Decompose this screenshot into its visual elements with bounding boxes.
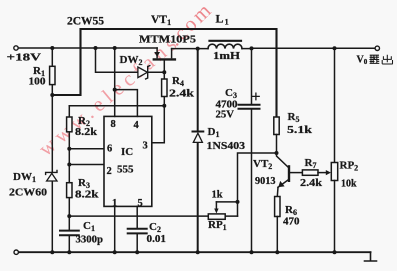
svg-text:VT1: VT1 bbox=[151, 14, 171, 27]
ground terminal bbox=[14, 250, 18, 254]
svg-text:R4: R4 bbox=[172, 75, 184, 88]
node VT2 collector bbox=[275, 151, 279, 155]
watermark www.elecfans.com bbox=[34, 0, 216, 161]
node R1 bottom bbox=[50, 93, 54, 97]
svg-text:470: 470 bbox=[283, 217, 300, 228]
transistor VT2 9013 bbox=[277, 153, 303, 197]
diode D1 bbox=[193, 49, 204, 253]
svg-text:L1: L1 bbox=[216, 12, 229, 27]
node DW2 branch bbox=[94, 46, 98, 50]
wire pin 8 supply bbox=[114, 48, 116, 116]
potentiometer RP1 bbox=[208, 202, 237, 219]
svg-text:DW1: DW1 bbox=[13, 171, 36, 184]
capacitor C2 bbox=[128, 229, 147, 253]
svg-text:555: 555 bbox=[117, 164, 134, 176]
node R3/C1 bbox=[67, 214, 71, 218]
wire pin 6 bbox=[69, 148, 104, 150]
svg-text:8: 8 bbox=[111, 119, 116, 130]
resistor R6 bbox=[275, 197, 280, 253]
wire R1-bottom to R5 feed (thick upper wire) bbox=[52, 29, 276, 117]
node C1 ground bbox=[67, 250, 71, 254]
node pin2 tap bbox=[67, 163, 71, 167]
svg-text:9013: 9013 bbox=[255, 176, 276, 187]
wire R2-R3 bbox=[68, 149, 70, 183]
resistor R7 bbox=[302, 170, 331, 175]
node R1 top bbox=[50, 46, 54, 50]
svg-text:100: 100 bbox=[29, 77, 46, 88]
svg-text:D1: D1 bbox=[208, 126, 220, 139]
wire collector to RP1 riser bbox=[238, 153, 277, 216]
input terminal +18V bbox=[14, 46, 18, 50]
svg-text:1k: 1k bbox=[212, 190, 223, 201]
svg-text:0.01: 0.01 bbox=[147, 234, 167, 245]
wire pin3 to R2 top bbox=[69, 105, 164, 107]
capacitor C1 bbox=[60, 216, 79, 252]
MOSFET VT1 bbox=[154, 48, 175, 72]
svg-text:IC: IC bbox=[121, 146, 133, 158]
svg-text:RP1: RP1 bbox=[208, 219, 227, 232]
svg-text:8.2k: 8.2k bbox=[75, 190, 99, 201]
resistor R2 bbox=[67, 106, 72, 149]
svg-text:R3: R3 bbox=[78, 177, 90, 190]
svg-text:2.4k: 2.4k bbox=[169, 89, 195, 100]
svg-text:R7: R7 bbox=[305, 157, 317, 170]
node gate junction bbox=[162, 70, 166, 74]
node RP2 rail top bbox=[333, 46, 337, 50]
resistor R5 bbox=[274, 117, 279, 153]
zener diode DW1 bbox=[46, 95, 57, 252]
svg-text:8.2k: 8.2k bbox=[75, 127, 98, 138]
svg-text:3300p: 3300p bbox=[76, 235, 104, 246]
svg-text:VT2: VT2 bbox=[253, 158, 272, 171]
svg-text:2.4k: 2.4k bbox=[300, 178, 323, 189]
svg-text:2CW60: 2CW60 bbox=[9, 187, 48, 199]
svg-text:+18V: +18V bbox=[7, 52, 42, 64]
node RP1 wiper tie bbox=[236, 200, 240, 204]
output terminal V0 bbox=[375, 46, 379, 50]
node pin6 tap bbox=[67, 147, 71, 151]
zener diode DW2 bbox=[138, 66, 164, 79]
wire pin 2 bbox=[69, 164, 104, 166]
svg-text:10k: 10k bbox=[341, 179, 357, 190]
resistor R4 bbox=[162, 72, 167, 106]
ground rail bbox=[18, 251, 370, 253]
svg-text:C1: C1 bbox=[83, 220, 95, 233]
resistor R3 bbox=[67, 183, 72, 216]
node pin1 ground bbox=[113, 250, 117, 254]
node R4 bottom / pin3 bbox=[162, 104, 166, 108]
svg-text:R6: R6 bbox=[285, 204, 297, 217]
capacitor C3 electrolytic bbox=[239, 48, 260, 252]
potentiometer RP2 bbox=[331, 48, 337, 252]
node DW1 ground bbox=[50, 250, 54, 254]
resistor R1 bbox=[50, 48, 55, 95]
svg-text:C3: C3 bbox=[225, 87, 237, 100]
svg-text:1: 1 bbox=[112, 198, 117, 209]
svg-text:RP2: RP2 bbox=[340, 160, 359, 173]
node pin8/pin4 split bbox=[113, 88, 117, 92]
svg-text:2CW55: 2CW55 bbox=[67, 16, 104, 28]
svg-text:R5: R5 bbox=[288, 111, 300, 124]
svg-text:3: 3 bbox=[143, 141, 148, 152]
node R6 ground bbox=[275, 250, 279, 254]
svg-text:4: 4 bbox=[134, 120, 140, 131]
wire control line (R3/C1 to RP1) bbox=[69, 215, 237, 217]
node D1 top bbox=[196, 47, 200, 51]
wire pin 1 bbox=[114, 206, 116, 252]
svg-text:1mH: 1mH bbox=[213, 51, 240, 62]
wire pin3 riser bbox=[152, 106, 165, 143]
IC U1 555 bbox=[104, 116, 152, 206]
svg-text:6: 6 bbox=[107, 144, 112, 155]
inductor L1 bbox=[172, 41, 252, 49]
wire pin 5 bbox=[136, 206, 138, 228]
node C3 top bbox=[250, 46, 254, 50]
node D1 ground bbox=[196, 250, 200, 254]
svg-text:5: 5 bbox=[138, 198, 143, 209]
wire DW2 branch bbox=[96, 48, 138, 72]
svg-text:2: 2 bbox=[107, 166, 112, 177]
svg-text:MTM10P5: MTM10P5 bbox=[139, 35, 196, 46]
wire +18V top rail bbox=[18, 47, 157, 49]
node RP2 ground bbox=[333, 250, 337, 254]
svg-text:C2: C2 bbox=[149, 221, 161, 234]
svg-text:25V: 25V bbox=[216, 110, 235, 121]
svg-text:5.1k: 5.1k bbox=[287, 125, 313, 136]
node C3 ground bbox=[250, 250, 254, 254]
ground symbol bbox=[365, 252, 377, 261]
wire output line bbox=[252, 47, 376, 49]
node C2 ground bbox=[135, 250, 139, 254]
svg-text:V0: V0 bbox=[357, 55, 368, 67]
node 555 supply branch bbox=[113, 46, 117, 50]
wire pin 4 bbox=[115, 90, 138, 117]
svg-text:1NS403: 1NS403 bbox=[207, 141, 246, 152]
